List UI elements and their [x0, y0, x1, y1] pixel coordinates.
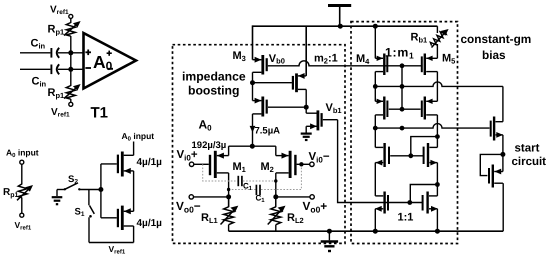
resistor Rp1 (bottom, variable) [64, 84, 81, 99]
node row1 gate dot [400, 63, 405, 68]
capacitor Cin (bottom) [51, 64, 59, 74]
wire M1 source up to tail [228, 146, 230, 155]
label RL2 [287, 212, 304, 225]
transistor Q7 (row3 left) [375, 128, 423, 196]
op-amp U1 triangle [84, 33, 137, 89]
wire start feedback [480, 154, 503, 175]
wire Rp1 to Vref1 bottom [70, 99, 72, 102]
node Vb1 gate dot [304, 105, 309, 110]
label Rp1 (bottom) [48, 87, 65, 100]
node ground rail dot [327, 229, 332, 234]
node C1b junction dot [227, 188, 230, 191]
label Vi0+ [177, 149, 198, 162]
node row2 left dot [373, 126, 378, 131]
terminal circle Vi0- [310, 162, 314, 166]
wire Vref1 to Rp1 [70, 18, 72, 23]
wire row3 gate tie [411, 137, 438, 156]
resistor RL2 (variable) [268, 197, 286, 231]
transistor Q9 (row4 left, 1:1) [375, 192, 388, 232]
wire C1 b to M2 gate (gray) [261, 166, 301, 190]
ground (main) [321, 231, 338, 251]
wire M1 drain vertical [228, 173, 230, 207]
transistor MB1 (Vb1 diode) [306, 107, 337, 130]
wire row1 drain node line with hop [375, 82, 503, 87]
svg-text:start: start [515, 143, 540, 155]
wire Rp1 to node A [70, 36, 72, 53]
svg-text:1:1: 1:1 [398, 212, 414, 224]
switch S1 [89, 190, 94, 243]
transistor QS2 (start lower) [489, 154, 503, 231]
label Cin (bottom) [32, 76, 47, 89]
label Vb0 [269, 53, 285, 66]
svg-text:constant-gm: constant-gm [461, 32, 532, 46]
capacitor C1 (b) [256, 185, 260, 195]
wire input 2 [20, 68, 50, 70]
transistor M5 [422, 54, 438, 102]
label S1 [75, 207, 85, 219]
label Rp1 (left-bottom) [3, 187, 19, 199]
transistor QS1 (start upper) [491, 117, 503, 155]
node row4 gate dot [407, 200, 412, 205]
node VDD junction dot [338, 24, 343, 29]
label C1 (b) [256, 194, 266, 205]
label impedance [182, 70, 246, 84]
node M2 gate dot [299, 162, 303, 166]
label M5 [442, 53, 455, 66]
resistor Rp1 (top, variable) [64, 21, 81, 36]
label Vb1 [326, 102, 342, 115]
capacitor C1 (a) [238, 176, 242, 186]
capacitor Cin (top) [51, 48, 59, 58]
wire C1 feedback path b (gray) [229, 189, 256, 191]
wire Mc1 source vertical [305, 26, 307, 76]
wire node A to node B [70, 53, 72, 70]
resistor Rp1 (left-bottom, variable) [17, 184, 33, 200]
wire C1 a to M2 drain (gray) [243, 180, 276, 182]
node row1 center dot [400, 84, 405, 89]
node M4 source rail dot [373, 24, 378, 29]
transistor M4 [375, 26, 387, 86]
node Vref1 (bottom) label [51, 107, 70, 119]
label 4u/1u (lower) [137, 218, 163, 229]
terminal circle Vref1 [20, 213, 24, 217]
label 7.5uA [255, 126, 281, 137]
label Rp1 (top) [48, 24, 65, 37]
label A0 (block) [199, 118, 213, 133]
node rail left dot [373, 229, 378, 234]
wire start supply drop [502, 86, 504, 121]
svg-text:T1: T1 [91, 105, 109, 122]
svg-text:4µ/1µ: 4µ/1µ [137, 157, 163, 168]
wire tail line [229, 145, 276, 147]
node B junction dot [68, 67, 73, 72]
wire node B to Rp1 bottom [70, 69, 72, 86]
node row3 gate dot [408, 153, 413, 158]
transistor Q5 (row2 left) [375, 86, 420, 128]
label A0 input (top of follower) [122, 131, 155, 143]
label Vo0- [176, 199, 201, 214]
label M1 [233, 161, 246, 174]
terminal circle Vo0- [189, 195, 193, 199]
wire A0 input drop [133, 142, 135, 156]
label RL1 [201, 212, 218, 225]
node row2 gate dot [400, 107, 405, 112]
svg-text:boosting: boosting [188, 83, 239, 97]
wire ground rail [229, 230, 504, 232]
node M3 drain dot [250, 80, 255, 85]
terminal circle Vi0+ [189, 162, 193, 166]
wire Rp1 to Vref1 [21, 198, 23, 214]
node gate junction dot [98, 187, 103, 192]
op-amp output - sign [108, 68, 113, 70]
label C1 (a) [243, 182, 253, 193]
wire gate bus vertical [100, 164, 102, 218]
op-amp label A0 [93, 52, 113, 73]
transistor M1 [194, 151, 229, 178]
svg-text:bias: bias [482, 48, 506, 62]
label Vo0+ [303, 199, 328, 214]
transistor Q6 (row2 right) [422, 97, 438, 148]
op-amp output + sign [107, 51, 112, 56]
node cascode tie dot [435, 134, 440, 139]
op-amp input - sign [85, 67, 91, 69]
label 1:1 [398, 212, 414, 224]
wire Vref1 rail (bottom-left) [89, 242, 134, 244]
ground (S2) [52, 190, 63, 205]
svg-text:impedance: impedance [182, 70, 246, 84]
label bias [482, 48, 506, 62]
node row2 center dot [400, 126, 405, 131]
ground (under MB1) [301, 126, 312, 140]
wire row4 gate feed [410, 185, 437, 203]
label Vi0- [309, 151, 330, 164]
wire to Rp1 [21, 164, 23, 184]
power VDD symbol [328, 6, 351, 27]
wire C1 feedback path a (gray) [203, 164, 238, 181]
transistor Q10 (row4 right, 1:1) [423, 192, 438, 232]
label M2 [261, 161, 274, 174]
wire Vo0- [194, 196, 229, 198]
transistor Q1 (upper 4u/1u) [101, 152, 134, 212]
label 192u/3u [192, 140, 227, 151]
transistor Q2 (lower 4u/1u) [101, 206, 134, 243]
wire cap to op-amp input - [58, 68, 84, 70]
wire VDD rail [253, 25, 438, 27]
terminal circle Vref1 top [69, 14, 73, 18]
node rail right dot [435, 229, 440, 234]
node Vo0+ dot [273, 194, 278, 199]
label Cin (top) [31, 38, 46, 51]
transistor Q8 (row3 right) [424, 143, 438, 196]
node start drain dot [500, 152, 505, 157]
transistor M3 [253, 55, 267, 83]
wire Vb1 line down and right [338, 120, 423, 203]
terminal circle A0 input [20, 160, 24, 164]
wire input 1 [20, 52, 50, 54]
svg-text:circuit: circuit [512, 156, 547, 168]
resistor Rb1 (variable) [429, 26, 448, 58]
resistor RL1 (variable) [221, 197, 239, 231]
wire M2 drain vertical [275, 173, 277, 207]
switch S2 [57, 183, 101, 191]
wire Mc1 gate lead [253, 82, 292, 84]
label m2:1 [314, 53, 338, 66]
label start [515, 143, 540, 155]
wire tail current with 7.5uA arrow [250, 114, 256, 146]
label Vref1 (small) [15, 220, 32, 232]
wire center bias vertical [401, 66, 403, 109]
label 4u/1u (upper) [137, 157, 163, 168]
label Rb1 [411, 31, 428, 44]
wire M3 source vertical [252, 25, 254, 59]
label boosting [188, 83, 239, 97]
node C1a junction dot [274, 179, 277, 182]
svg-text:A0 input: A0 input [122, 131, 155, 143]
svg-text:A0 input: A0 input [6, 148, 39, 160]
svg-text:4µ/1µ: 4µ/1µ [137, 218, 163, 229]
svg-text:7.5µA: 7.5µA [255, 126, 281, 137]
transistor M2 [276, 146, 310, 178]
node tail dot [250, 144, 255, 149]
wire Vo0+ [276, 196, 310, 198]
op-amp input + sign [85, 50, 91, 56]
node row3 right drain dot [435, 182, 440, 187]
label 1:m1 [385, 46, 414, 61]
node A junction dot [68, 50, 73, 55]
node row1 left dot [373, 84, 378, 89]
dashed box constant-gm bias [351, 22, 458, 244]
label A0 input (left) [6, 148, 39, 160]
node Vo0- dot [226, 194, 231, 199]
transistor Mc1 (cascode, m2:1 mirror) [293, 73, 306, 107]
label T1 [91, 105, 109, 122]
wire row2 drain node line with hop [375, 124, 489, 128]
terminal circle Vref1 bottom [69, 102, 73, 106]
transistor Mc2 (tail cascode) [253, 83, 304, 117]
label circuit [512, 156, 547, 168]
terminal circle Vo0+ [310, 195, 314, 199]
label constant-gm [461, 32, 532, 46]
label M3 [233, 50, 246, 63]
label S2 [68, 174, 78, 186]
wire cap to op-amp input + [58, 52, 84, 54]
node Vref1 (top) label [50, 4, 69, 16]
label Vref1 (follower) [109, 244, 126, 256]
label M4 [356, 53, 370, 66]
dashed box impedance boosting [173, 45, 346, 244]
wire Vb0 gate line with hop [268, 61, 422, 66]
